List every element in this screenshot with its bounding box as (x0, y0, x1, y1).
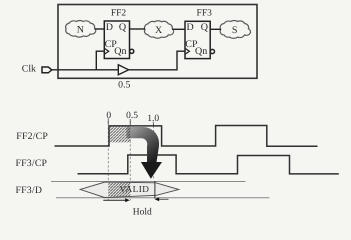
guide line at 1.0 (153, 122, 155, 180)
FF3 clock edge wedge (185, 48, 189, 54)
svg-text:FF3: FF3 (197, 9, 213, 19)
guide line at 0 (107, 119, 109, 200)
wire X to FF3.D (172, 28, 185, 30)
svg-text:Hold: Hold (133, 208, 152, 218)
svg-text:0.5: 0.5 (118, 80, 130, 91)
wire FF3.Q to S (210, 28, 221, 30)
svg-text:Q: Q (119, 22, 127, 33)
hold dimension right arrow (159, 198, 169, 200)
svg-text:N: N (77, 24, 84, 35)
svg-text:FF2/CP: FF2/CP (16, 131, 48, 142)
wire branch up to FF2.CP (96, 51, 104, 70)
svg-text:FF2: FF2 (111, 9, 127, 19)
flip-flop U-FF2 body (104, 21, 129, 59)
svg-text:0.5: 0.5 (126, 111, 138, 121)
outer box (module boundary) (58, 5, 257, 79)
svg-text:Qn: Qn (195, 46, 207, 57)
FF3/D valid-data hexagon (80, 182, 179, 198)
hatched hold region inside hexagon (108, 183, 130, 197)
cloud N (66, 20, 96, 37)
wire Clk to buffer (52, 69, 119, 71)
FF3/D upper rail (51, 181, 246, 183)
FF2 Qn bubble (130, 49, 134, 53)
waveform FF2/CP (55, 126, 318, 147)
svg-text:FF3/D: FF3/D (16, 185, 43, 196)
big skew arrow head (141, 162, 162, 179)
waveform FF3/CP (78, 155, 339, 174)
FF2 clock edge wedge (104, 48, 108, 54)
hold tick at right boundary (154, 181, 156, 199)
svg-text:D: D (187, 22, 194, 33)
guide line at 0.5 (129, 119, 131, 201)
Clk input port (42, 67, 52, 73)
svg-text:D: D (106, 22, 113, 33)
FF3 Qn bubble (210, 49, 214, 53)
svg-text:Q: Q (201, 22, 209, 33)
buffer (clock skew 0.5) (118, 65, 128, 75)
cloud S (220, 20, 250, 38)
hold dimension left arrow (103, 199, 126, 201)
big skew arrow shaft (127, 127, 160, 162)
wire FF2.Q to X (130, 28, 146, 30)
svg-text:Clk: Clk (22, 64, 36, 75)
hatched old-data region on FF2/CP pulse (109, 126, 131, 142)
axis tick at 1.0 (152, 122, 154, 127)
flip-flop U-FF3 body (185, 21, 210, 58)
svg-text:FF3/CP: FF3/CP (16, 158, 48, 169)
svg-text:X: X (155, 25, 163, 36)
wire N to FF2.D (95, 28, 105, 30)
cloud X (144, 21, 173, 38)
svg-text:0: 0 (106, 111, 111, 121)
svg-text:Qn: Qn (114, 46, 126, 57)
axis tick at 0.5 (129, 119, 131, 125)
svg-text:VALID: VALID (120, 184, 150, 194)
wire buffer to FF3.CP (129, 51, 185, 70)
FF3/D lower rail (56, 197, 270, 199)
svg-text:S: S (232, 25, 238, 36)
axis tick at 0 (107, 119, 109, 125)
